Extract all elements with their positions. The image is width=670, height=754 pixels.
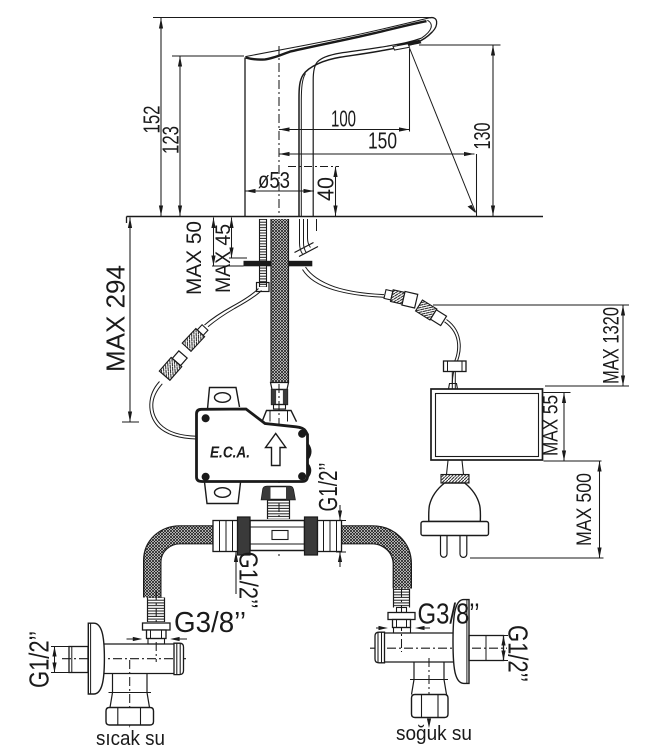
- dim 40 line: [335, 167, 337, 217]
- tee flange right: [305, 517, 318, 555]
- dim 152 extension line top: [153, 17, 433, 19]
- cable break slashes: [295, 243, 319, 257]
- control box mounting tab bottom: [205, 482, 241, 504]
- adapter cable boot top: [449, 384, 458, 390]
- left valve centerline horizontal: [62, 658, 186, 660]
- countertop deck line: [127, 216, 544, 218]
- mounting washer black bar left: [244, 261, 272, 267]
- dim 150 extension down: [476, 154, 478, 216]
- dim MAX 55 line: [563, 393, 565, 462]
- box corner screws: [202, 414, 307, 481]
- box outlet threaded pipe: [268, 500, 290, 520]
- left valve wall flange: [88, 623, 104, 694]
- plug prong left: [441, 536, 448, 558]
- right valve leg: [414, 662, 444, 680]
- svg-text:MAX 1320: MAX 1320: [599, 307, 624, 384]
- plug prong right: [460, 536, 467, 558]
- svg-text:ø53: ø53: [258, 167, 290, 193]
- svg-text:130: 130: [469, 123, 495, 150]
- left valve neck: [148, 639, 165, 645]
- dim MAX 55 extensions: [544, 392, 571, 394]
- dim MAX 500 line: [599, 461, 601, 558]
- right valve outlet cap: [375, 632, 385, 663]
- aerator front face: [393, 44, 410, 50]
- sensor cable to control box left: [205, 289, 259, 326]
- svg-text:G1/2’’: G1/2’’: [234, 552, 264, 609]
- faucet spout underside front contour: [299, 32, 432, 216]
- right valve hose neck: [397, 608, 407, 613]
- right valve centerline horizontal: [370, 647, 507, 649]
- right valve wall pipe: [469, 636, 504, 661]
- right valve centerline top outlet: [401, 588, 403, 652]
- right valve wall flange: [453, 600, 469, 684]
- left valve compression nut: [143, 623, 171, 630]
- dim MAX 45 line: [231, 218, 233, 259]
- right valve neck: [394, 628, 411, 634]
- cable from connector into box: [150, 382, 197, 440]
- dim G1/2 left under tee: [235, 552, 237, 595]
- faucet spout underside back contour: [313, 38, 421, 216]
- cable connector male right: [383, 287, 417, 308]
- box outlet hex nut: [262, 487, 296, 500]
- flow direction arrow: [266, 434, 286, 466]
- svg-text:100: 100: [331, 106, 356, 132]
- box hinge bumps right: [308, 445, 311, 477]
- dim o53 line: [245, 190, 314, 192]
- tee flange left: [238, 517, 251, 555]
- svg-text:MAX 45: MAX 45: [212, 224, 235, 293]
- dim 40 extension: [288, 166, 339, 168]
- dim 152 line: [160, 18, 162, 216]
- box inlet hex boss: [262, 411, 297, 422]
- left valve centerline top outlet: [155, 591, 157, 662]
- dim MAX 1320 extensions: [433, 304, 629, 306]
- faucet spout tip inner: [421, 20, 431, 38]
- dim 123 line: [179, 56, 181, 216]
- dim G3/8 right arrows: [376, 627, 430, 629]
- svg-text:G3/8’’: G3/8’’: [174, 607, 246, 639]
- dim 123 extension line: [172, 55, 244, 57]
- dim 130 line: [492, 45, 494, 216]
- plug base: [421, 522, 489, 536]
- svg-text:MAX 500: MAX 500: [572, 473, 596, 546]
- dim MAX 500 extension bottom: [470, 557, 604, 559]
- dim G1/2 wall left: [51, 647, 69, 673]
- dim 100 line: [279, 129, 410, 131]
- left valve wall pipe: [69, 647, 88, 673]
- svg-text:G3/8’’: G3/8’’: [418, 599, 480, 631]
- aerator dark bar: [397, 40, 422, 48]
- left valve centerline leg: [129, 660, 131, 724]
- dim MAX 1320 line: [622, 305, 624, 386]
- left valve leg: [113, 674, 148, 693]
- left valve outlet cap: [174, 643, 184, 674]
- plug body: [429, 483, 481, 522]
- supply hose braided vertical: [271, 219, 289, 383]
- svg-text:sıcak su: sıcak su: [96, 728, 165, 750]
- svg-text:G1/2’’: G1/2’’: [313, 463, 343, 512]
- dim 150 line: [279, 153, 475, 155]
- cable connector female left: [159, 350, 188, 380]
- left valve body: [104, 644, 175, 674]
- svg-text:123: 123: [158, 126, 184, 154]
- right hose end ferrule: [394, 589, 410, 608]
- hose end ferrule above box: [271, 383, 289, 390]
- right valve centerline leg: [428, 658, 430, 724]
- faucet centerline: [278, 46, 280, 556]
- left valve hex handle: [106, 708, 154, 726]
- faucet spout tip outer: [429, 18, 436, 32]
- faucet top back thin edge: [245, 18, 429, 57]
- faucet top front thick edge: [246, 21, 427, 59]
- mounting shank threaded: [260, 219, 267, 287]
- control box mounting tab top: [208, 388, 240, 410]
- right valve compression nut: [388, 613, 415, 620]
- hose braided tee to left valve: [144, 526, 213, 598]
- cable connector male left: [182, 323, 209, 351]
- tee hose nut right: [318, 521, 342, 552]
- svg-text:MAX 294: MAX 294: [101, 265, 131, 372]
- right valve hex handle: [412, 695, 449, 718]
- svg-text:150: 150: [368, 128, 397, 154]
- sensor cable bundle below faucet: [300, 219, 317, 254]
- svg-text:G1/2’’: G1/2’’: [24, 631, 55, 688]
- right valve body: [385, 633, 456, 662]
- svg-text:E.C.A.: E.C.A.: [210, 445, 250, 462]
- svg-text:MAX 55: MAX 55: [539, 395, 563, 456]
- left hose end ferrule: [148, 598, 165, 623]
- dim 130 extension top: [419, 44, 501, 46]
- dim MAX 294 line: [129, 218, 131, 423]
- power adapter box outer: [431, 389, 543, 460]
- svg-text:soğuk su: soğuk su: [396, 723, 472, 745]
- control box body: [197, 409, 308, 482]
- dim G1/2 wall right: [500, 636, 509, 661]
- sensor cable to power right: [306, 267, 385, 295]
- dim MAX 50 line: [213, 218, 215, 267]
- tee fitting body: [250, 521, 305, 551]
- dim 100 extension from aerator: [409, 49, 411, 132]
- svg-text:40: 40: [313, 177, 339, 201]
- cable from connector to adapter: [447, 320, 461, 385]
- faucet bend doubled contour: [301, 74, 305, 217]
- plug ribbed ring: [441, 475, 469, 484]
- hose nut above box: [272, 390, 288, 405]
- faucet body left edge: [244, 58, 246, 217]
- dim G3/8 left arrows: [127, 638, 188, 640]
- hose braided tee to right valve: [342, 526, 412, 589]
- cable clamp collar: [444, 361, 467, 372]
- plug strain relief: [447, 461, 464, 475]
- power adapter box inner: [436, 394, 539, 457]
- svg-text:MAX 50: MAX 50: [183, 221, 206, 295]
- water stream diagonal: [410, 48, 476, 212]
- cable connector female right: [416, 300, 447, 326]
- tee hose nut left: [213, 521, 238, 552]
- mounting washer black bar right: [289, 261, 313, 267]
- svg-text:G1/2’’: G1/2’’: [503, 625, 534, 682]
- dim G1/2 right of tee: [339, 505, 341, 567]
- shank mounting nut: [257, 283, 270, 292]
